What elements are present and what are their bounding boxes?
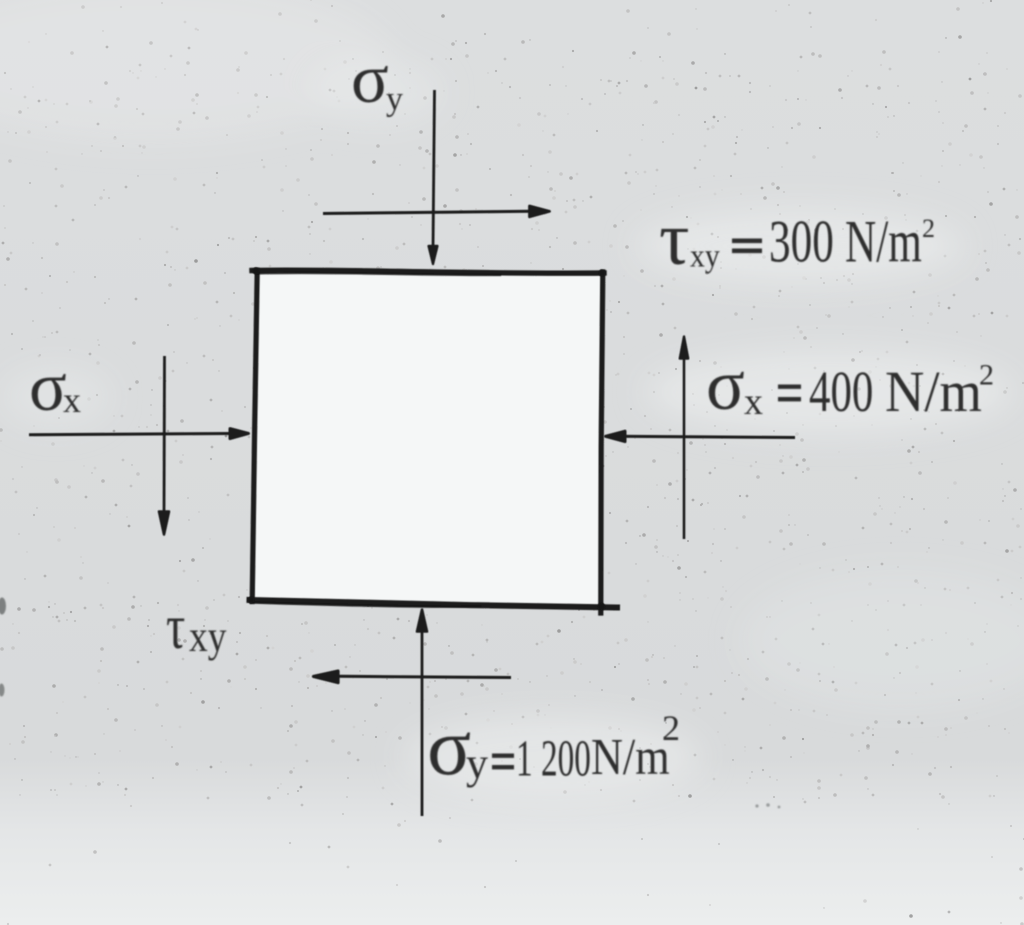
svg-text:σ: σ	[351, 41, 389, 118]
svg-text:xy: xy	[690, 237, 720, 274]
svg-text:y: y	[386, 81, 403, 118]
bottom shear arrow (left)	[314, 671, 512, 683]
svg-text:1 200: 1 200	[516, 730, 591, 787]
svg-text:2: 2	[922, 214, 935, 243]
label sigma_x = 400 N/m^2 (right)	[706, 345, 994, 425]
svg-text:N/m: N/m	[591, 729, 670, 786]
stress element square border	[250, 270, 618, 613]
svg-text:σ: σ	[706, 345, 745, 425]
label tau_xy = 300 N/m^2 (upper right)	[659, 197, 935, 281]
svg-text:σ: σ	[29, 349, 67, 426]
stray scan mark (left margin lower)	[0, 684, 5, 697]
svg-text:N/m: N/m	[845, 209, 922, 276]
stray scan mark (left margin upper)	[0, 598, 6, 615]
stray dots lower right	[755, 803, 780, 808]
corner ink blobs	[248, 267, 606, 610]
sigma_x left arrow (right into left face)	[29, 429, 249, 439]
stress element square (white face)	[250, 273, 601, 607]
left shear arrow (down)	[159, 356, 169, 535]
svg-text:x: x	[63, 380, 81, 420]
svg-text:2: 2	[979, 359, 994, 392]
svg-text:τ: τ	[166, 593, 185, 663]
right shear arrow (up)	[680, 337, 688, 540]
svg-text:x: x	[744, 381, 763, 423]
svg-text:τ: τ	[659, 197, 690, 281]
svg-text:N/m: N/m	[885, 361, 982, 425]
sigma_y top arrow (down into top face)	[429, 90, 438, 264]
label sigma_y = 1200 N/m^2 (bottom)	[427, 701, 680, 792]
sigma_x right arrow (left into right face)	[606, 431, 796, 441]
sigma_y bottom arrow (up into bottom face)	[417, 610, 427, 817]
svg-text:400: 400	[809, 361, 873, 425]
label sigma_y (top)	[351, 41, 403, 118]
svg-text:y: y	[466, 739, 488, 788]
svg-text:300: 300	[769, 209, 834, 276]
top shear arrow (right)	[323, 206, 550, 217]
svg-text:σ: σ	[427, 701, 471, 792]
label sigma_x (left)	[29, 349, 81, 426]
svg-text:xy: xy	[189, 612, 227, 660]
svg-text:2: 2	[662, 708, 680, 748]
label tau_xy (lower left)	[166, 593, 227, 663]
